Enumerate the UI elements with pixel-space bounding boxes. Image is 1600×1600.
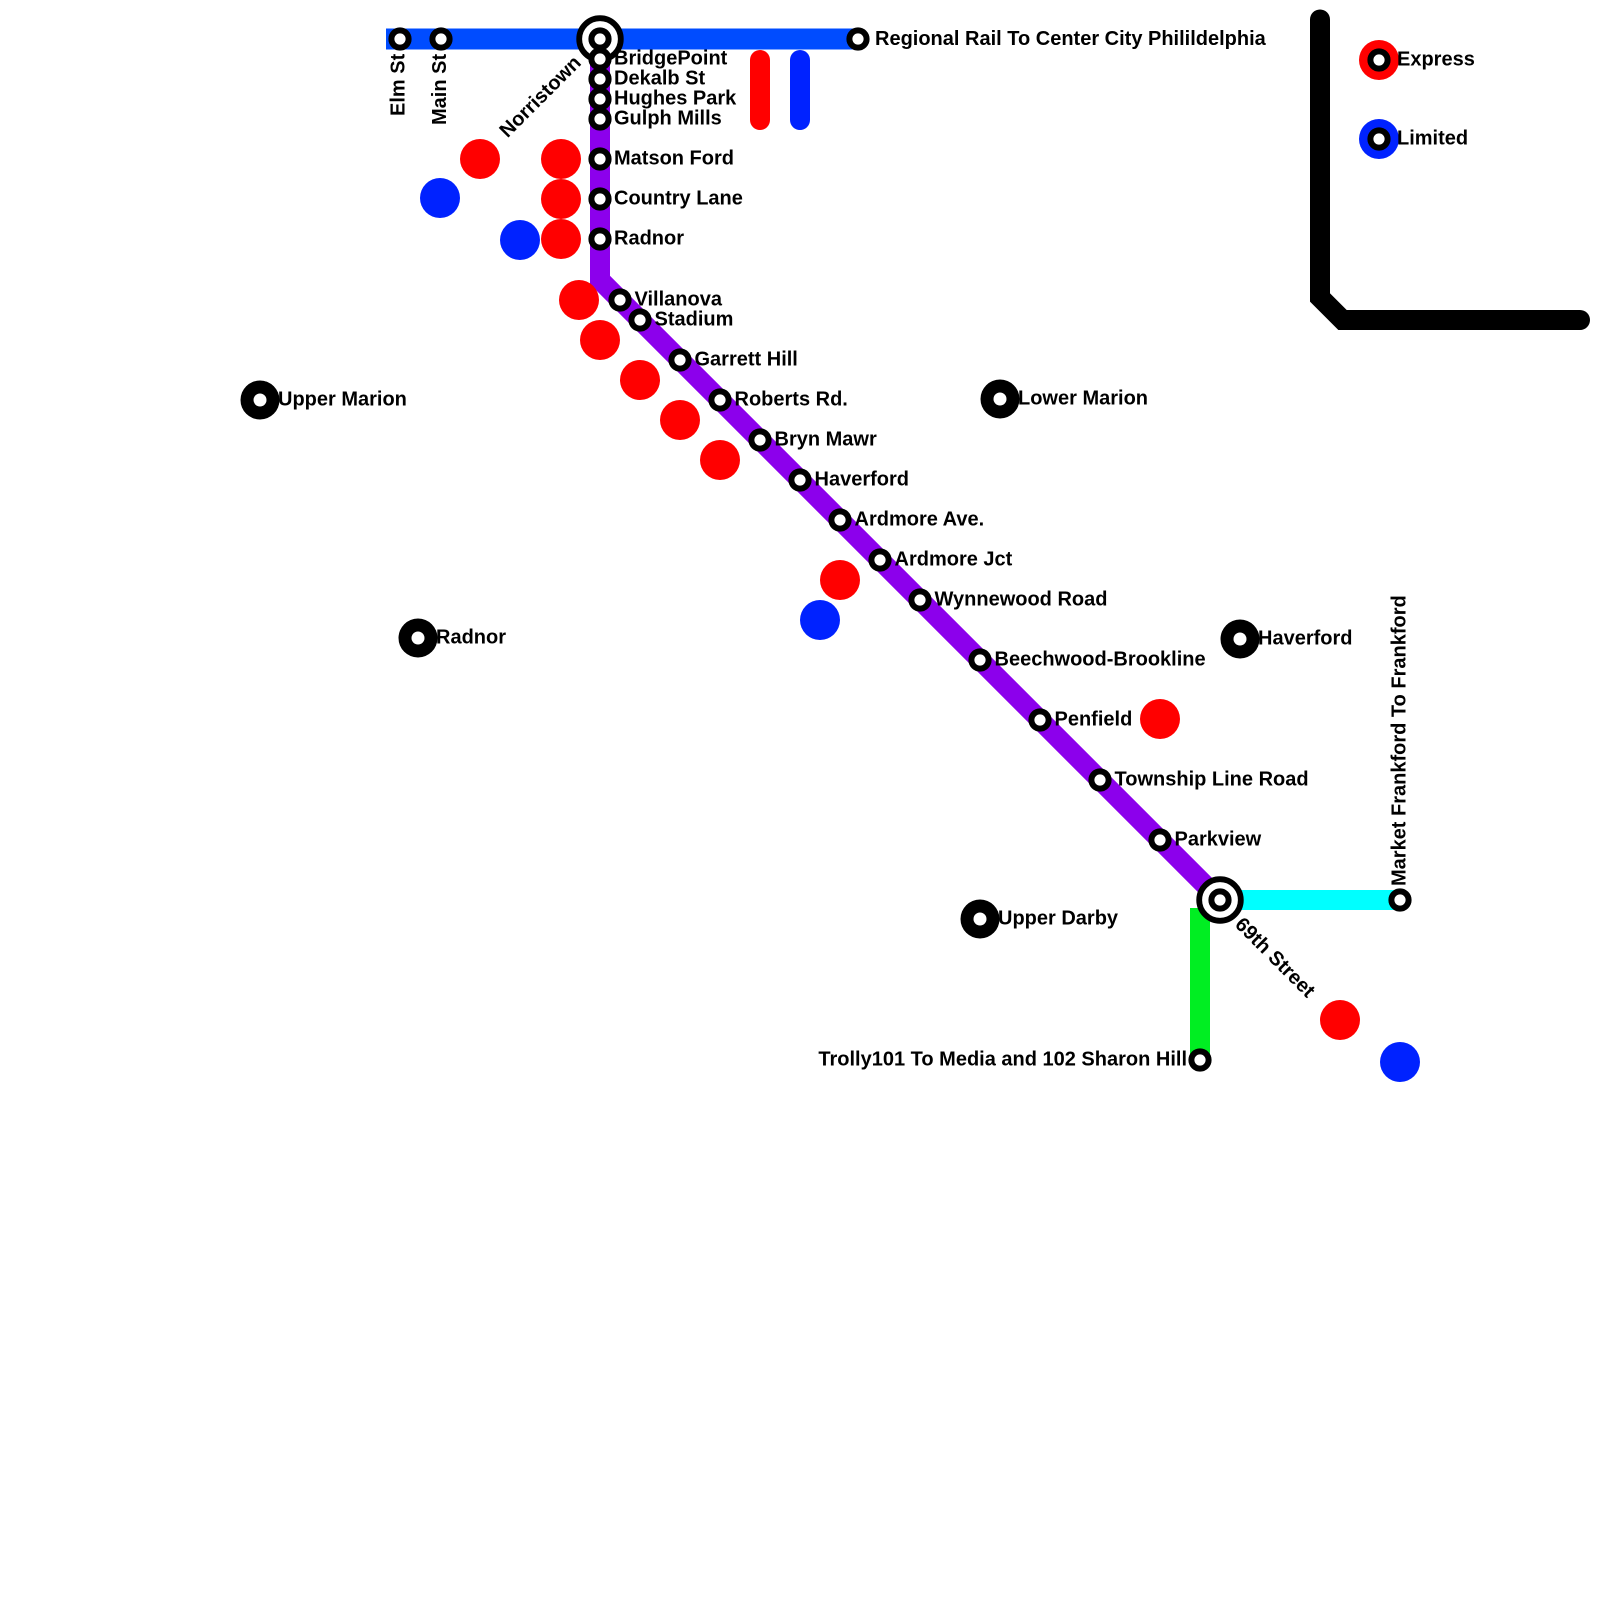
svg-text:Upper Darby: Upper Darby xyxy=(998,908,1119,930)
svg-text:Parkview: Parkview xyxy=(1175,829,1262,851)
svg-text:Lower Marion: Lower Marion xyxy=(1018,388,1148,410)
station trolley terminus xyxy=(1191,1051,1208,1068)
blue limited dot 2 xyxy=(500,220,540,260)
station Market Frankford terminus xyxy=(1391,891,1408,908)
station Ardmore Jct xyxy=(871,551,888,568)
interchange Norristown xyxy=(579,18,621,60)
svg-text:Dekalb St: Dekalb St xyxy=(614,68,705,90)
svg-text:Bryn Mawr: Bryn Mawr xyxy=(775,429,877,451)
svg-text:Haverford: Haverford xyxy=(1258,628,1352,650)
wire: blue regional rail line xyxy=(386,29,858,50)
station Wynnewood Road xyxy=(911,591,928,608)
svg-text:Penfield: Penfield xyxy=(1055,709,1133,731)
station Country Lane xyxy=(591,190,608,207)
red express dot 4 xyxy=(541,219,581,259)
svg-text:Express: Express xyxy=(1397,49,1475,71)
red express dot 10 xyxy=(820,560,860,600)
red express dot 9 xyxy=(700,440,740,480)
svg-text:Matson Ford: Matson Ford xyxy=(614,148,734,170)
red express dot 8 xyxy=(660,400,700,440)
station Haverford xyxy=(791,471,808,488)
svg-text:Upper Marion: Upper Marion xyxy=(278,389,407,411)
station Hughes Park xyxy=(591,90,608,107)
red express dot 11 xyxy=(1140,699,1180,739)
svg-text:Wynnewood Road: Wynnewood Road xyxy=(935,589,1108,611)
station Stadium xyxy=(631,311,648,328)
red express dot 2 xyxy=(541,139,581,179)
red express dot 7 xyxy=(620,360,660,400)
station Beechwood-Brookline xyxy=(971,651,988,668)
station Elm St xyxy=(391,30,408,47)
svg-text:Beechwood-Brookline: Beechwood-Brookline xyxy=(995,649,1206,671)
station Township Line Road xyxy=(1091,771,1108,788)
svg-text:Country Lane: Country Lane xyxy=(614,188,743,210)
township disc Haverford xyxy=(1221,620,1260,659)
red express service bar xyxy=(750,60,770,120)
township disc Upper Marion xyxy=(241,381,280,420)
station Parkview xyxy=(1151,831,1168,848)
station Ardmore Ave xyxy=(831,511,848,528)
legend bracket xyxy=(1320,20,1580,321)
station Garrett Hill xyxy=(671,351,688,368)
blue limited dot 1 xyxy=(420,178,460,218)
red express dot 12 xyxy=(1320,1000,1360,1040)
svg-text:Radnor: Radnor xyxy=(436,627,506,649)
svg-text:Ardmore Ave.: Ardmore Ave. xyxy=(855,509,985,531)
station Radnor xyxy=(591,230,608,247)
township disc Radnor xyxy=(399,619,438,658)
township disc Lower Marion xyxy=(981,380,1020,419)
station Roberts Rd xyxy=(711,391,728,408)
station Dekalb St xyxy=(591,70,608,87)
blue limited dot 3 xyxy=(800,600,840,640)
station Villanova xyxy=(611,291,628,308)
station Gulph Mills xyxy=(591,110,608,127)
svg-text:Township Line Road: Township Line Road xyxy=(1115,769,1309,791)
svg-text:Ardmore Jct: Ardmore Jct xyxy=(895,549,1013,571)
station Main St xyxy=(432,30,449,47)
red express dot 1 xyxy=(460,139,500,179)
station Regional Rail xyxy=(849,30,866,47)
red express dot 6 xyxy=(580,320,620,360)
svg-text:Garrett Hill: Garrett Hill xyxy=(695,349,798,371)
wire: purple Norristown High Speed Line xyxy=(600,39,1220,900)
legend limited symbol xyxy=(1359,119,1399,159)
station Bryn Mawr xyxy=(751,431,768,448)
svg-text:Villanova: Villanova xyxy=(635,289,723,311)
station Penfield xyxy=(1031,711,1048,728)
svg-text:Stadium: Stadium xyxy=(655,309,734,331)
svg-text:Haverford: Haverford xyxy=(815,469,909,491)
svg-text:BridgePoint: BridgePoint xyxy=(614,48,728,70)
blue limited service bar xyxy=(790,60,810,120)
svg-text:Trolly101 To Media and 102 Sha: Trolly101 To Media and 102 Sharon Hill xyxy=(818,1049,1187,1071)
station Matson Ford xyxy=(591,150,608,167)
wire: cyan Market Frankford line xyxy=(1220,890,1400,910)
interchange 69th Street xyxy=(1199,879,1241,921)
svg-text:Limited: Limited xyxy=(1397,128,1468,150)
station BridgePoint xyxy=(591,50,608,67)
svg-text:Market Frankford To Frankford: Market Frankford To Frankford xyxy=(1389,595,1411,886)
red express dot 5 xyxy=(559,280,599,320)
township disc Upper Darby xyxy=(961,900,1000,939)
legend express symbol xyxy=(1359,40,1399,80)
svg-text:Radnor: Radnor xyxy=(614,228,684,250)
svg-text:Regional Rail To Center City P: Regional Rail To Center City Philildelph… xyxy=(875,28,1267,50)
red express dot 3 xyxy=(541,179,581,219)
wire: green trolley line xyxy=(1190,908,1210,1060)
svg-text:Roberts Rd.: Roberts Rd. xyxy=(735,389,848,411)
svg-text:Hughes Park: Hughes Park xyxy=(614,88,737,110)
svg-text:Main St: Main St xyxy=(429,54,451,125)
svg-text:Elm St: Elm St xyxy=(388,53,410,116)
svg-text:Gulph Mills: Gulph Mills xyxy=(614,108,722,130)
blue limited dot 4 xyxy=(1380,1042,1420,1082)
